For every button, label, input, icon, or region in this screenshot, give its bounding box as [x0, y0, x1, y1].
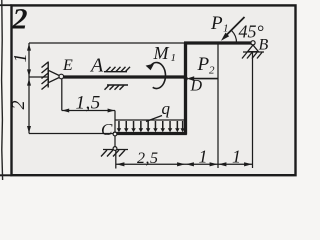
svg-text:B: B — [259, 37, 269, 54]
svg-text:1: 1 — [199, 147, 208, 167]
svg-text:2,5: 2,5 — [137, 150, 159, 167]
svg-text:P: P — [210, 13, 223, 34]
svg-text:1: 1 — [232, 147, 241, 167]
svg-text:D: D — [190, 78, 203, 95]
svg-text:1: 1 — [10, 54, 30, 63]
svg-text:1: 1 — [171, 52, 177, 64]
svg-text:C: C — [101, 120, 113, 139]
svg-text:2: 2 — [12, 2, 28, 35]
svg-text:P: P — [197, 54, 210, 75]
svg-text:2: 2 — [209, 65, 215, 77]
svg-text:M: M — [153, 43, 170, 63]
svg-text:A: A — [89, 55, 104, 77]
svg-text:1: 1 — [223, 23, 229, 35]
svg-text:q: q — [162, 99, 171, 118]
svg-text:2: 2 — [8, 101, 28, 110]
svg-text:E: E — [62, 57, 73, 74]
svg-text:1,5: 1,5 — [76, 93, 101, 114]
